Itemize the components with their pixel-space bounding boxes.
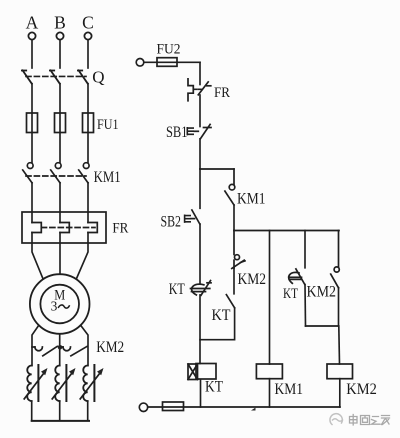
wire bridge to KM2 coil [338,326,341,364]
motor tilde [59,305,70,308]
contactor KM2 shorting contact B-C [60,347,87,356]
wire KM1 contact to rail R1 [233,205,235,231]
switch Q pole C [78,70,88,83]
thermal relay FR heater C [88,223,97,233]
switch Q pole B [50,70,60,83]
svg-text:A: A [26,13,39,33]
wire KM1 coil to bottom rail [269,379,271,407]
time relay KT NC delayed contact (main line) [191,281,212,296]
svg-text:B: B [54,13,66,33]
watermark text [350,415,390,426]
bridge wire [306,325,339,327]
node A label [26,13,39,33]
rail R1 [234,230,339,232]
wire Q to FU1 phase C [87,84,89,163]
svg-text:C: C [82,13,94,33]
wire KT coil to bottom rail [200,380,202,408]
KM1 coil label [275,381,304,398]
thermal relay FR NC contact [188,79,211,101]
bottom rail wire [148,406,340,408]
wire FR to motor phase B [59,233,61,275]
reactor coil phase B [55,365,66,401]
KM2 NC label [238,271,267,288]
fuse FU1 phase A [27,113,38,133]
svg-text:KM2: KM2 [346,381,377,398]
wire KT NO to junction J2 [200,308,235,340]
contactor KM1 label [94,169,121,186]
time relay KT coil [188,364,216,380]
reactor coil phase A [27,365,38,401]
KM2 coil label [346,381,377,398]
contactor KM1 main contact A [23,163,33,183]
wire reactor A to star point [31,401,33,421]
KM1 auxiliary label [237,191,266,208]
thermal relay FR linkage dashed [42,227,96,229]
wire KM1 to FR phase B [59,183,61,223]
wire KT delayed to bridge [304,285,307,327]
wire FR to motor phase A [32,233,43,280]
fuse bottom [163,402,184,411]
KT delayed label [283,286,298,302]
wire motor to KM2 row phase B [59,334,61,366]
svg-text:3: 3 [51,298,58,313]
wire Q to FU1 phase A [31,84,33,163]
FR contact label [214,85,230,101]
svg-text:FR: FR [214,85,230,101]
wire phase C to switch Q [87,40,89,68]
wire SB1 to junction J1 [199,139,201,169]
reactor arrow phase C [80,368,103,399]
KM2 NO label [307,283,337,300]
svg-text:KT: KT [283,286,298,302]
contactor KM2 NC auxiliary contact [232,231,245,269]
svg-text:KM1: KM1 [94,169,121,186]
terminal B [56,32,63,39]
svg-text:KM1: KM1 [237,191,266,208]
svg-text:KM2: KM2 [238,271,267,288]
contactor KM1 NO auxiliary contact [225,169,235,205]
reactor arrow phase A [24,368,47,399]
thermal relay FR heater A [32,223,41,233]
control terminal top [136,59,144,67]
fuse FU2 [157,58,177,67]
reactor coil phase C [83,365,94,401]
KT NO label [212,307,231,324]
contactor KM1 coil [256,364,282,379]
wire motor to KM2 row phase C [81,325,88,365]
wire SB2 to KT contact [199,224,201,283]
fuse FU1 phase B [55,113,66,133]
watermark logo [330,414,343,425]
SB1 label [166,124,188,141]
wire KM2 coil to bottom rail [339,379,341,407]
contactor KM1 linkage dashed [26,175,86,177]
wire reactor C to star point [87,401,89,421]
junction dot phase B [58,345,63,350]
fuse FU1 phase C [83,113,94,133]
wire KM1 to FR phase A [31,183,33,223]
wire rail R1 to KT delayed NO [304,231,306,268]
contactor KM2 label [96,339,124,356]
thermal relay FR box [22,212,106,243]
svg-text:FU1: FU1 [97,117,119,133]
wire KM2 NO to bridge [338,288,340,326]
time relay KT NO delayed-closing contact [289,269,305,285]
wire terminal to FU2 [144,61,200,63]
fuse FU2 label [157,42,181,58]
wire J1 to SB2 [199,169,201,208]
svg-text:KT: KT [169,281,185,298]
motor M inner circle [40,285,79,324]
contactor KM1 main contact B [51,163,61,183]
KT coil label [205,379,223,396]
wire KT contact to junction J2 [199,295,201,364]
wire junction J1 branch [200,168,234,170]
contactor KM1 main contact C [79,163,89,183]
svg-text:KM1: KM1 [275,381,304,398]
switch Q linkage dashed [26,75,86,77]
wire KM2 NC to KT NO [233,268,235,294]
svg-text:KT: KT [212,307,231,324]
svg-text:KT: KT [205,379,223,396]
contactor KM2 coil [327,364,353,379]
svg-text:FR: FR [112,221,128,237]
thermal relay FR label [112,221,128,237]
node C label [82,13,94,33]
svg-text:SB2: SB2 [161,214,182,231]
wire phase A to switch Q [31,40,33,68]
switch Q label [92,67,104,86]
motor M label [54,288,65,304]
wire FR to motor phase C [76,233,88,280]
rail artifact dot [251,408,256,411]
svg-text:Q: Q [92,67,104,86]
contactor KM2 NO self-hold contact [331,231,340,288]
time relay KT NO contact (branch) [226,295,234,308]
svg-text:FU2: FU2 [157,42,181,58]
wire Q to FU1 phase B [59,84,61,163]
motor 3 label [51,298,58,313]
wire phase B to switch Q [59,40,61,68]
start button SB2 NO contact [185,210,200,224]
wire motor to KM2 row phase A [32,325,39,365]
terminal A [28,32,35,39]
wire rail R1 to KM1 coil [269,231,271,365]
svg-text:KM2: KM2 [307,283,337,300]
fuse FU1 label [97,117,119,133]
wire KM1 to FR phase C [87,183,89,223]
wire reactor B to star point [59,401,61,421]
SB2 label [161,214,182,231]
star point wire [32,420,89,422]
wire top corner down to FR contact [199,62,201,84]
node B label [54,13,66,33]
svg-text:KM2: KM2 [96,339,124,356]
reactor arrow phase B [52,368,75,399]
stop button SB1 NC contact [187,124,211,138]
control terminal bottom [139,403,147,411]
KT contact label (main line) [169,281,185,298]
motor M outer circle [30,274,90,334]
svg-text:SB1: SB1 [166,124,188,141]
contactor KM2 shorting contact A-B [32,346,57,355]
terminal C [84,32,91,39]
wire FR contact to SB1 [199,95,201,127]
switch Q pole A [22,70,32,83]
thermal relay FR heater B [60,223,69,233]
